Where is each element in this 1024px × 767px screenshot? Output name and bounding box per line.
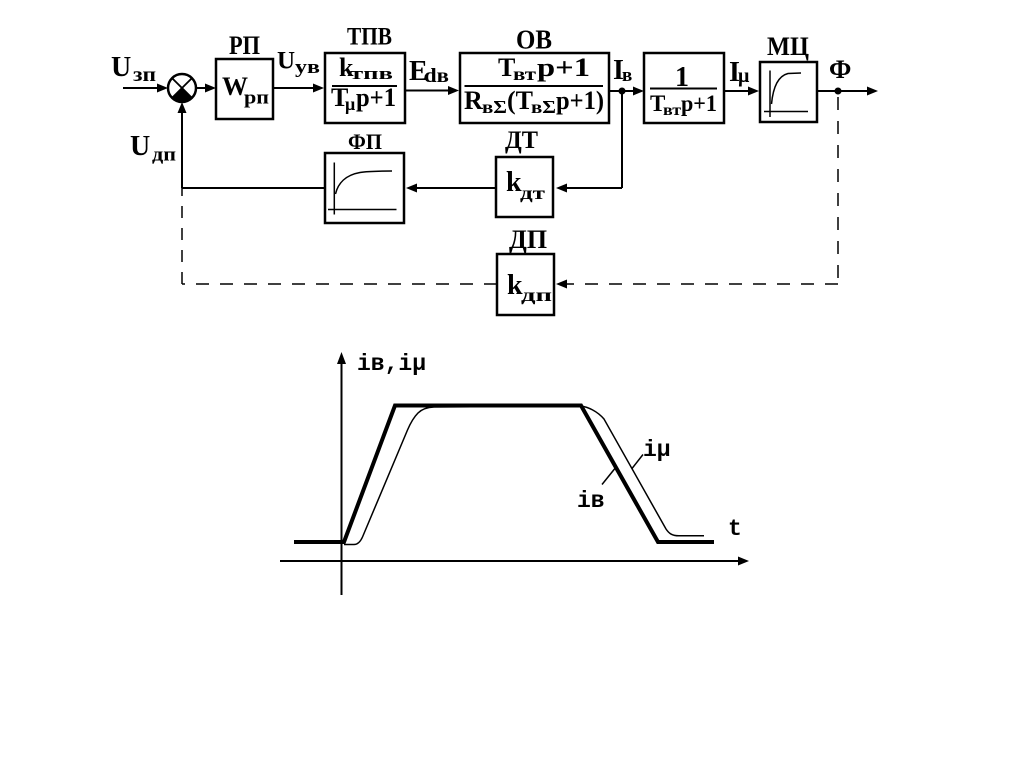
svg-text:U: U	[277, 48, 295, 75]
svg-text:ДТ: ДТ	[505, 127, 538, 154]
svg-text:вΣ: вΣ	[531, 97, 556, 117]
svg-text:p+1): p+1)	[556, 86, 604, 115]
wire summer to РП	[196, 84, 216, 93]
svg-text:U: U	[130, 131, 150, 162]
label Uзп	[111, 52, 156, 86]
svg-text:R: R	[464, 86, 483, 115]
svg-text:ТПВ: ТПВ	[347, 24, 392, 51]
svg-text:дп: дп	[521, 285, 552, 305]
graph horizontal axis	[280, 557, 749, 566]
svg-text:p+1: p+1	[537, 53, 590, 82]
summing junction	[168, 74, 196, 102]
svg-text:iв,iμ: iв,iμ	[357, 351, 426, 377]
curve iв thick	[294, 406, 714, 543]
label Uдп	[130, 131, 176, 166]
svg-text:ФП: ФП	[348, 129, 382, 154]
svg-text:p+1: p+1	[681, 91, 717, 116]
wire ОВ to integrator with node	[609, 87, 644, 96]
svg-text:в: в	[622, 65, 632, 86]
curve iμ thin	[344, 406, 704, 545]
wire input to summer	[123, 84, 168, 93]
block ТПВ kтпв/(Tμp+1)	[325, 53, 405, 123]
label iμ with pointer	[632, 437, 671, 469]
svg-text:Ф: Ф	[829, 55, 851, 84]
svg-text:iв: iв	[577, 488, 605, 514]
dashed wire node Ф down	[837, 97, 839, 284]
svg-text:ОВ: ОВ	[516, 25, 552, 55]
svg-text:дт: дт	[520, 183, 545, 203]
svg-text:дп: дп	[152, 145, 176, 166]
svg-text:РП: РП	[229, 31, 260, 60]
svg-text:μ: μ	[738, 65, 750, 87]
label Iμ	[729, 57, 750, 88]
svg-text:dв: dв	[424, 65, 449, 87]
wire МЦ output with node	[817, 87, 878, 96]
wire into ДТ	[556, 184, 622, 193]
wire РП to ТПВ	[273, 84, 324, 93]
svg-text:t: t	[728, 516, 742, 542]
svg-text:(T: (T	[507, 86, 533, 115]
dashed wire up to summer branch	[181, 188, 183, 284]
svg-text:μ: μ	[345, 94, 355, 114]
svg-text:U: U	[111, 52, 131, 83]
svg-text:МЦ: МЦ	[767, 32, 809, 61]
svg-text:p+1: p+1	[356, 83, 396, 112]
block 1/(Tвтp+1)	[644, 53, 724, 123]
dashed wire ДП to left	[182, 283, 497, 285]
block МЦ saturation curve	[760, 62, 817, 122]
dashed wire to ДП with arrow	[556, 280, 838, 289]
label Uув	[277, 48, 320, 79]
block ОВ (Tвтp+1)/(RвΣ(TвΣp+1))	[460, 53, 609, 123]
wire integrator to МЦ	[724, 87, 759, 96]
label Iв	[613, 55, 632, 86]
wire ТПВ to ОВ	[405, 86, 459, 95]
block ФП curve	[325, 153, 404, 223]
svg-text:рп: рп	[244, 88, 269, 109]
svg-text:зп: зп	[133, 64, 156, 86]
svg-text:iμ: iμ	[643, 437, 671, 463]
svg-text:вт: вт	[663, 102, 681, 119]
svg-text:вт: вт	[513, 64, 536, 84]
wire ФП to summer feedback	[178, 102, 326, 188]
svg-text:вΣ: вΣ	[482, 97, 507, 117]
svg-text:ув: ув	[295, 57, 320, 78]
block ДТ kдт	[496, 157, 553, 217]
wire ДТ to ФП	[406, 184, 496, 193]
svg-text:ДП: ДП	[509, 225, 547, 254]
block РП Wрп	[216, 59, 273, 119]
block ДП kдп	[497, 254, 554, 315]
svg-text:тпв: тпв	[350, 64, 393, 83]
label iв with pointer	[577, 467, 617, 515]
graph vertical axis	[337, 352, 346, 595]
label Edв	[409, 56, 449, 87]
wire node Iв down to ДТ	[621, 91, 623, 188]
